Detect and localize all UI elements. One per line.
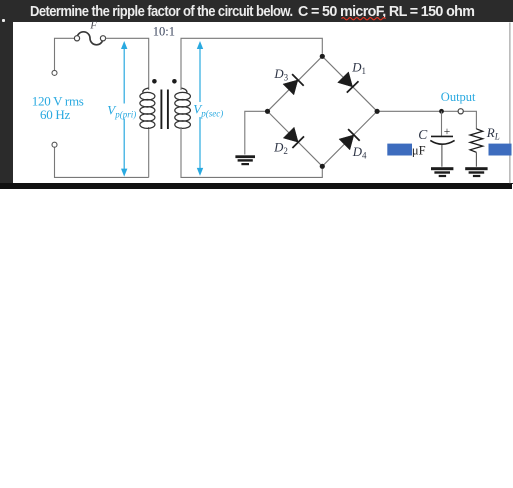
- svg-text:D1: D1: [351, 61, 366, 77]
- wire: secondary top to bridge: [181, 38, 322, 90]
- spellcheck squiggle under microF: [342, 18, 386, 20]
- svg-text:RL: RL: [486, 125, 500, 142]
- question text part B: [298, 4, 474, 20]
- terminal plug top circle: [52, 70, 57, 75]
- Vp(pri) dimension arrow: [121, 41, 127, 177]
- svg-text:Vp(pri): Vp(pri): [107, 103, 136, 120]
- transformer phase dot secondary: [172, 79, 177, 84]
- blue highlight box near uF value: [387, 144, 412, 156]
- svg-text:F: F: [89, 19, 97, 31]
- svg-text:C: C: [418, 127, 428, 142]
- black window bottom border band: [0, 183, 512, 189]
- svg-text:10:1: 10:1: [153, 25, 175, 39]
- transformer T1 primary coil: [140, 88, 155, 128]
- diode D1 (top-right arm, points to right node): [338, 72, 359, 93]
- svg-text:D2: D2: [273, 141, 288, 157]
- node: output junction: [439, 109, 444, 114]
- wire: capacitor top lead: [441, 111, 443, 136]
- node: bridge bottom: [320, 164, 325, 169]
- wire: primary bottom lead: [148, 127, 150, 177]
- node: bridge left: [265, 109, 270, 114]
- svg-text:Output: Output: [441, 90, 476, 104]
- svg-text:D3: D3: [273, 67, 288, 83]
- diode D2 (left-bottom arm, points to bottom node): [283, 127, 304, 148]
- wire: top left from source to fuse: [55, 38, 75, 70]
- transformer phase dot primary: [152, 79, 157, 84]
- svg-text:μF: μF: [412, 143, 426, 157]
- dark app background: [0, 0, 513, 184]
- svg-text:D4: D4: [352, 145, 367, 161]
- diode D3 (left-top arm, points to top node): [283, 74, 304, 95]
- resistor RL zigzag: [470, 129, 483, 152]
- transformer T1 core: [161, 90, 168, 130]
- ground (capacitor): [431, 167, 453, 177]
- ground (RL): [465, 167, 487, 177]
- node: bridge top: [320, 54, 325, 59]
- question text part A: [30, 4, 292, 20]
- ground (bridge left): [235, 155, 255, 165]
- bridge arm wires (diamond): [268, 56, 378, 166]
- wire: bridge right node to output and RL: [377, 111, 476, 129]
- svg-text:60 Hz: 60 Hz: [40, 107, 70, 122]
- blue highlight box near RL value: [489, 144, 512, 156]
- figure right border: [509, 23, 511, 184]
- diode D4 (bottom-right arm, points to right node): [339, 129, 360, 150]
- svg-text:+: +: [444, 126, 451, 138]
- Vp(sec) dimension arrow: [197, 41, 203, 176]
- capacitor C plates: [430, 136, 454, 144]
- wire: fuse to transformer primary top: [106, 38, 149, 90]
- transformer T1 secondary coil: [175, 88, 191, 128]
- svg-text:Vp(sec): Vp(sec): [193, 102, 223, 119]
- wire: secondary bottom to bridge: [181, 127, 322, 177]
- fuse F element: [74, 32, 105, 45]
- terminal plug bottom circle: [52, 142, 57, 147]
- wire: capacitor bottom lead: [441, 145, 443, 167]
- list numbering period: [2, 19, 5, 22]
- node: bridge right: [375, 109, 380, 114]
- white figure panel: [13, 22, 513, 183]
- wire: bridge left node to ground: [245, 111, 268, 154]
- wire: lower left from source terminal to primary bottom: [55, 147, 149, 177]
- output terminal circle: [458, 109, 463, 114]
- wire: RL bottom lead: [475, 152, 477, 166]
